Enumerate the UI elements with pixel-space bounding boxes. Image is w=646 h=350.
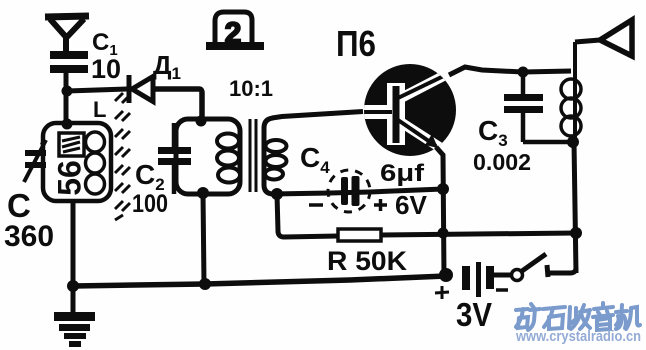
- node secondary bottom: [271, 188, 283, 200]
- char ji: [616, 305, 640, 329]
- label P6: [336, 23, 376, 64]
- label 100: [132, 190, 168, 218]
- char yin: [593, 303, 613, 330]
- transistor Q1 symbol: [363, 70, 456, 150]
- node primary bottom: [197, 187, 209, 199]
- svg-text:6μf: 6μf: [380, 160, 425, 187]
- label 0.002: [473, 149, 531, 175]
- capacitor C1: [50, 51, 88, 92]
- earphone: [600, 20, 632, 56]
- diode D1: [129, 75, 153, 103]
- switch lever: [522, 254, 546, 271]
- transformer T1 secondary frame: [264, 118, 273, 194]
- node emitter resistor junction: [438, 228, 449, 239]
- wire secondary bottom: [272, 189, 443, 194]
- wire base lead: [272, 112, 363, 119]
- capacitor C2: [158, 123, 191, 194]
- label C4: [300, 142, 330, 177]
- watermark url: [515, 328, 641, 345]
- antenna: [45, 16, 89, 54]
- transformer T1 primary frame: [176, 119, 240, 194]
- svg-text:3V: 3V: [456, 296, 492, 333]
- svg-text:C: C: [7, 187, 31, 224]
- value 56 rotated: [51, 160, 87, 196]
- wire junction to diode: [67, 89, 127, 91]
- node primary bottom rail: [199, 278, 211, 290]
- svg-text:L: L: [93, 97, 106, 122]
- earphone coil: [561, 42, 581, 142]
- label 10: [91, 54, 121, 84]
- svg-text:Д1: Д1: [153, 50, 181, 83]
- variable capacitor C plates: [25, 150, 46, 168]
- wire battery to switch: [494, 273, 512, 278]
- svg-text:360: 360: [4, 220, 54, 253]
- inductor L turns: [86, 132, 105, 194]
- electrolytic capacitor case: [328, 170, 370, 212]
- transformer T1 secondary turns: [265, 140, 287, 180]
- switch contact: [547, 265, 548, 277]
- char shou: [569, 305, 590, 329]
- polarity plus: [374, 199, 387, 211]
- label R 50K: [327, 246, 408, 276]
- transformer T1 primary turns: [217, 134, 240, 183]
- label 6uf: [380, 160, 425, 187]
- wire bias branch: [277, 194, 338, 237]
- label C: [7, 187, 31, 224]
- label C3: [478, 115, 508, 150]
- label C1: [92, 29, 118, 59]
- wire emitter down: [436, 147, 444, 276]
- label 6V: [395, 190, 428, 220]
- wire coil box to ground rail: [71, 201, 76, 286]
- label 3V: [456, 296, 492, 333]
- battery B1: [462, 262, 494, 297]
- polarity minus: [309, 203, 323, 207]
- svg-text:C3: C3: [478, 115, 508, 150]
- ferrite rod hatch marks: [115, 93, 130, 220]
- svg-text:6V: 6V: [395, 190, 428, 220]
- wire C3 bottom: [523, 140, 572, 145]
- wire collector to top rail: [449, 67, 571, 75]
- char kuang: [516, 304, 540, 330]
- wire coil bottom to switch corner: [574, 142, 576, 273]
- label C2: [135, 159, 165, 194]
- node ground left: [67, 280, 79, 292]
- svg-text:П6: П6: [336, 23, 376, 64]
- node switch rail corner: [570, 227, 582, 239]
- node emitter cap junction: [437, 183, 449, 195]
- node coil bottom: [567, 136, 579, 148]
- svg-text:www.crystalradio.cn: www.crystalradio.cn: [515, 328, 641, 345]
- watermark text: [516, 303, 640, 330]
- svg-text:R 50K: R 50K: [327, 246, 408, 276]
- capacitor C3: [504, 72, 543, 142]
- battery plus label: [435, 286, 449, 299]
- wire junction down to coil box: [64, 91, 69, 124]
- node battery plus: [439, 268, 453, 282]
- resistor R 50K: [338, 229, 381, 241]
- char shi: [543, 307, 565, 329]
- label L: [93, 97, 106, 122]
- wire coil to earphone: [575, 40, 600, 42]
- label 360: [4, 220, 54, 253]
- transistor Q1 body: [364, 64, 456, 156]
- node collector rail C3: [518, 67, 529, 78]
- ground: [54, 286, 95, 347]
- svg-text:100: 100: [132, 190, 168, 218]
- inductor L loop frame: [43, 123, 111, 201]
- wire primary bottom to rail: [203, 193, 204, 284]
- svg-text:10:1: 10:1: [229, 76, 273, 101]
- svg-text:C4: C4: [300, 142, 330, 177]
- switch pivot: [512, 270, 523, 281]
- svg-text:0.002: 0.002: [473, 149, 531, 175]
- wire resistor to switch rail: [381, 233, 576, 235]
- variable capacitor arrow: [24, 140, 46, 182]
- inductor L core box: [59, 133, 84, 156]
- node A: [196, 116, 207, 127]
- electrolytic capacitor plates: [341, 176, 360, 206]
- wire diode to node A: [153, 89, 202, 121]
- node coil top: [62, 119, 73, 130]
- svg-text:10: 10: [91, 54, 121, 84]
- transformer T1 core: [250, 119, 256, 192]
- node antenna junction: [62, 86, 73, 97]
- figure marker 2: [206, 12, 264, 50]
- label D1: [153, 50, 181, 83]
- wire switch to corner: [548, 268, 576, 273]
- ground rail: [73, 276, 446, 286]
- battery minus label: [496, 288, 508, 292]
- label 10:1: [229, 76, 273, 101]
- svg-text:56: 56: [51, 160, 87, 196]
